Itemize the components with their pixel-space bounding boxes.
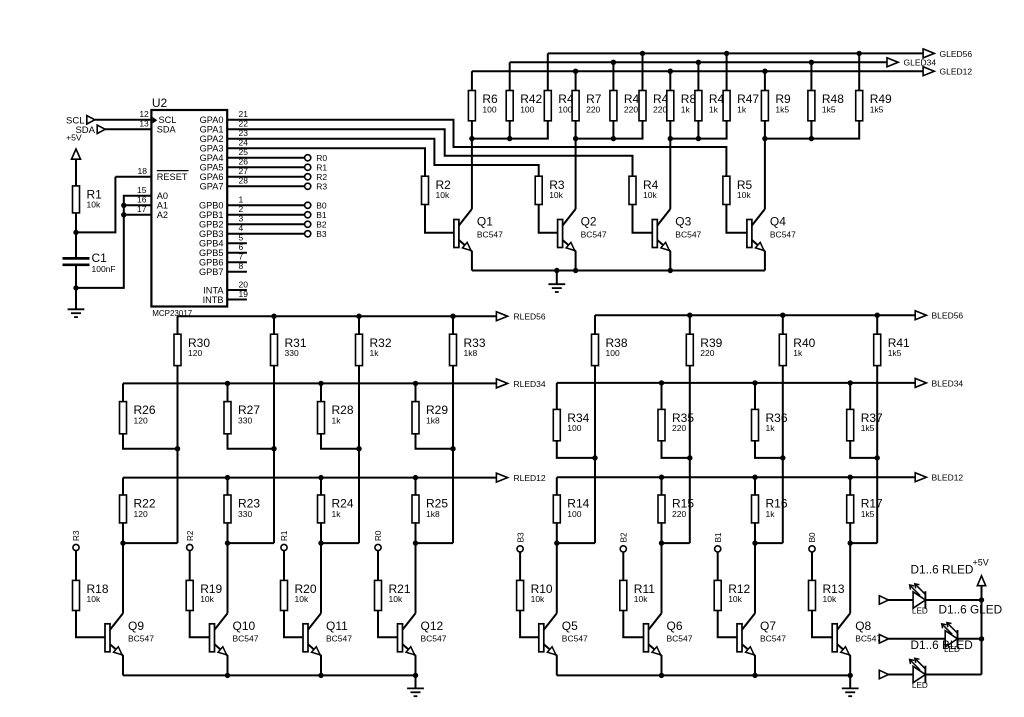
svg-text:GPA1: GPA1	[200, 125, 224, 135]
wire Q8 collector	[849, 543, 851, 613]
svg-text:12: 12	[139, 109, 149, 119]
node B0 (GPB0)	[305, 201, 327, 211]
wire column R39 down	[662, 366, 693, 543]
svg-text:GPB7: GPB7	[199, 267, 224, 277]
wire column R31 top stub	[273, 316, 275, 334]
port RLED12	[496, 473, 546, 483]
node B3 (GPB3)	[305, 229, 327, 239]
resistor R6	[468, 91, 498, 121]
resistor R17	[847, 495, 883, 523]
port SDA input	[75, 125, 151, 136]
transistor Q8	[832, 613, 881, 675]
svg-text:330: 330	[238, 509, 252, 519]
wire B0 to R13	[811, 552, 813, 580]
transistor Q11	[303, 613, 352, 675]
svg-text:GPB4: GPB4	[199, 239, 224, 249]
node R3 input	[72, 530, 81, 551]
diode D1..6 BLED LED	[910, 658, 928, 690]
resistor R2	[422, 176, 452, 204]
resistor R10	[517, 580, 553, 610]
svg-text:A0: A0	[157, 191, 168, 201]
svg-text:GPB5: GPB5	[199, 248, 224, 258]
port GLED12	[923, 67, 972, 77]
svg-text:A1: A1	[157, 201, 168, 211]
transistor Q6	[644, 613, 693, 675]
wire B1 to R12	[717, 552, 719, 580]
svg-text:100: 100	[606, 348, 620, 358]
node B2 input	[620, 532, 629, 552]
wire R23 top stub	[227, 478, 229, 495]
wire R1 bottom to C1 and RESET node	[73, 177, 151, 259]
wire R29 top stub	[415, 383, 417, 401]
svg-text:R1: R1	[280, 530, 289, 541]
port GLED34	[887, 58, 936, 68]
svg-text:BC547: BC547	[233, 634, 259, 644]
resistor R8	[667, 91, 697, 121]
svg-text:220: 220	[653, 104, 667, 114]
port RLED34	[496, 379, 546, 389]
resistor R5	[723, 176, 753, 204]
resistor R31	[271, 334, 307, 365]
svg-text:GPA4: GPA4	[200, 153, 224, 163]
resistor R29	[412, 402, 448, 434]
resistor R19	[186, 580, 222, 610]
svg-text:330: 330	[285, 348, 299, 358]
wire R17 top stub	[849, 477, 851, 495]
resistor R23	[224, 495, 260, 523]
svg-text:1k5: 1k5	[775, 104, 789, 114]
svg-text:R2: R2	[186, 530, 195, 541]
svg-text:20: 20	[239, 279, 249, 289]
wire GLED34 bus	[510, 60, 887, 65]
wire column R41 down	[850, 366, 880, 543]
wire R37 bottom	[850, 441, 877, 458]
svg-text:GPB6: GPB6	[199, 258, 224, 268]
node B0 input	[808, 532, 817, 552]
wire RLED34 bus	[123, 381, 496, 386]
wire R28 top stub	[320, 383, 322, 401]
wire GLED12 bus	[472, 69, 923, 74]
resistor R11	[620, 580, 655, 610]
resistor R25	[412, 495, 448, 523]
resistor R9	[761, 91, 791, 121]
resistor R48	[808, 91, 844, 121]
resistor R42	[506, 91, 542, 121]
svg-text:BC547: BC547	[128, 634, 154, 644]
wire column R39 top stub	[689, 315, 691, 334]
transistor Q2	[558, 209, 607, 271]
svg-text:RESET: RESET	[157, 172, 188, 182]
wire R34 top stub	[556, 383, 558, 410]
diode D1..6 RLED LED	[910, 584, 928, 616]
svg-text:10k: 10k	[643, 190, 657, 200]
svg-text:10k: 10k	[737, 190, 751, 200]
port D1..6 RLED input	[879, 596, 888, 605]
resistor R33	[450, 334, 486, 365]
svg-text:BC547: BC547	[667, 634, 693, 644]
resistor R14	[553, 495, 589, 523]
wire GPA4 to port R0	[227, 157, 304, 159]
wire GPB0 to port B0	[227, 204, 304, 206]
wire Q6 base	[623, 611, 643, 638]
svg-text:GPA7: GPA7	[200, 182, 224, 192]
svg-text:1k5: 1k5	[861, 509, 875, 519]
svg-text:B1: B1	[316, 210, 327, 220]
wire GPA0 to R5	[227, 120, 726, 176]
wire R37 top stub	[849, 383, 851, 410]
svg-text:GPA2: GPA2	[200, 134, 224, 144]
wire Q11 collector	[320, 543, 322, 613]
svg-text:BLED34: BLED34	[932, 378, 964, 388]
svg-text:Q11: Q11	[326, 619, 348, 633]
svg-text:Q7: Q7	[760, 619, 776, 633]
transistor Q1	[454, 209, 503, 271]
wire column R40 down	[755, 366, 786, 543]
ground left matrix	[407, 675, 424, 696]
svg-text:10k: 10k	[436, 190, 450, 200]
svg-text:GPA3: GPA3	[200, 144, 224, 154]
port RLED56	[496, 312, 546, 322]
svg-text:D1..6 RLED: D1..6 RLED	[911, 563, 974, 577]
transistor Q5	[539, 613, 588, 675]
wire R46 top stub	[697, 62, 699, 90]
wire GPA5 to port R1	[227, 166, 304, 168]
resistor R36	[752, 409, 788, 440]
wire +5V rail	[979, 597, 984, 674]
wire column R38 down	[557, 366, 598, 543]
node R0 input	[374, 530, 383, 551]
svg-text:100nF: 100nF	[92, 264, 116, 274]
wire GPA7 to port R3	[227, 185, 304, 187]
svg-text:BC547: BC547	[326, 634, 352, 644]
wire Q9-Q12 emitter bus	[123, 673, 418, 678]
ground below C1	[68, 288, 85, 317]
resistor R7	[572, 91, 602, 121]
wire GPA6 to port R2	[227, 176, 304, 178]
resistor R12	[714, 580, 750, 610]
ground top transistors	[548, 271, 565, 293]
wire R24 bottom	[318, 523, 323, 546]
resistor R18	[73, 580, 109, 610]
port GLED56	[923, 49, 972, 59]
port BLED56	[915, 311, 963, 321]
label D1..6 RLED	[911, 563, 974, 577]
resistor R13	[809, 580, 845, 610]
svg-text:R0: R0	[316, 153, 327, 163]
wire column R30 top stub	[177, 316, 179, 334]
wire R15 bottom	[659, 523, 664, 546]
svg-text:GPA6: GPA6	[200, 172, 224, 182]
label D1..6 GLED	[939, 603, 1003, 617]
wire GPB3 to port B3	[227, 233, 304, 235]
wire GPA2 to R3	[227, 139, 539, 176]
wire R49 top stub	[858, 53, 860, 90]
wire R0 to R21	[377, 551, 379, 581]
svg-text:R1: R1	[316, 163, 327, 173]
node B3 input	[516, 532, 525, 552]
svg-text:220: 220	[672, 509, 686, 519]
transistor Q10	[210, 613, 259, 675]
wire Q9 collector	[122, 543, 124, 613]
resistor R16	[752, 495, 788, 523]
op-amp U2 MCP23017 IC	[137, 96, 248, 318]
svg-text:1k5: 1k5	[822, 104, 836, 114]
svg-text:BC547: BC547	[855, 634, 881, 644]
wire R26 top stub	[122, 383, 124, 401]
wire BLED12 bus	[557, 475, 915, 480]
wire INTB stub	[227, 299, 247, 301]
wire GPB6 stub	[227, 261, 247, 263]
wire Q1 base	[425, 205, 454, 233]
wire R8 top stub	[669, 71, 671, 90]
svg-text:B1: B1	[714, 532, 723, 542]
svg-text:15: 15	[137, 185, 147, 195]
ground right matrix	[842, 675, 859, 696]
wire Q7 base	[718, 611, 737, 638]
svg-text:INTA: INTA	[203, 285, 224, 295]
wire R1 to R20	[283, 551, 285, 581]
svg-text:SDA: SDA	[157, 125, 177, 135]
wire R27 bottom	[228, 434, 275, 449]
svg-text:BC547: BC547	[581, 229, 607, 239]
svg-text:1: 1	[239, 195, 244, 205]
wire R7 top stub	[575, 71, 577, 90]
svg-text:Q8: Q8	[855, 619, 871, 633]
svg-text:1k: 1k	[766, 423, 776, 433]
svg-text:10k: 10k	[728, 594, 742, 604]
resistor R35	[658, 409, 694, 440]
diode D1..6 GLED LED	[942, 623, 960, 655]
wire group 3 bottom bus	[668, 121, 727, 142]
wire R45 top stub	[642, 53, 644, 90]
svg-text:BC547: BC547	[675, 229, 701, 239]
wire Q4 base	[726, 205, 747, 233]
svg-text:Q10: Q10	[233, 619, 256, 633]
wire column R38 top stub	[594, 315, 596, 334]
svg-text:R0: R0	[374, 530, 383, 541]
node B2 (GPB2)	[305, 220, 327, 230]
wire R25 top stub	[415, 478, 417, 495]
svg-text:21: 21	[239, 109, 249, 119]
svg-text:100: 100	[482, 104, 496, 114]
node R3 (GPA7)	[305, 182, 328, 192]
wire column R33 top stub	[452, 316, 454, 334]
svg-text:GLED34: GLED34	[904, 58, 937, 68]
wire R14 bottom	[554, 523, 559, 546]
wire R16 top stub	[754, 477, 756, 495]
svg-text:GPB0: GPB0	[199, 201, 224, 211]
svg-text:Q6: Q6	[667, 619, 683, 633]
resistor R37	[847, 409, 883, 440]
wire R43 top stub	[547, 53, 549, 90]
wire Q5-Q8 emitter bus	[557, 673, 853, 678]
resistor R27	[224, 402, 260, 434]
svg-text:BC547: BC547	[760, 634, 786, 644]
wire R6 top stub	[471, 71, 473, 90]
svg-text:R3: R3	[72, 530, 81, 541]
svg-text:GPB2: GPB2	[199, 220, 224, 230]
wire RLED row	[889, 599, 982, 601]
resistor R32	[356, 334, 392, 365]
svg-text:B3: B3	[516, 532, 525, 542]
wire column R30 down	[123, 366, 180, 543]
resistor R20	[281, 580, 317, 610]
node B1 (GPB1)	[305, 210, 327, 220]
svg-text:BLED56: BLED56	[932, 311, 964, 321]
wire Q10 collector	[227, 543, 229, 613]
svg-text:1k8: 1k8	[464, 348, 478, 358]
wire Q3 base	[633, 205, 653, 233]
wire R26 bottom	[123, 434, 178, 449]
wire Q10 base	[190, 611, 210, 638]
wire GPA1 to R4	[227, 129, 632, 176]
wire GLED56 bus	[548, 51, 923, 56]
svg-text:BC547: BC547	[770, 229, 796, 239]
svg-text:Q9: Q9	[128, 619, 144, 633]
wire GPB2 to port B2	[227, 223, 304, 225]
power +5V supply	[66, 132, 82, 186]
wire R24 top stub	[320, 478, 322, 495]
wire BLED34 bus	[557, 380, 915, 385]
wire group 2 bottom bus	[573, 121, 643, 142]
svg-text:330: 330	[238, 415, 252, 425]
wire Q7 collector	[754, 543, 756, 613]
port D1..6 GLED input	[879, 635, 888, 644]
wire R29 bottom	[416, 434, 454, 449]
svg-text:1k8: 1k8	[426, 415, 440, 425]
capacitor C1	[63, 251, 116, 274]
resistor R39	[686, 334, 722, 365]
wire R22 bottom	[120, 523, 125, 546]
svg-text:D1..6 BLED: D1..6 BLED	[911, 638, 973, 652]
wire R28 bottom	[321, 434, 359, 449]
wire R14 top stub	[556, 477, 558, 495]
svg-text:Q5: Q5	[562, 619, 578, 633]
wire GPB4 stub	[227, 242, 247, 244]
svg-text:1k5: 1k5	[861, 423, 875, 433]
wire R47 top stub	[726, 53, 728, 90]
svg-text:10k: 10k	[87, 594, 101, 604]
resistor R45	[639, 91, 675, 121]
wire RLED12 bus	[123, 475, 496, 480]
wire R16 bottom	[752, 523, 757, 546]
wire group 1 bottom bus	[469, 121, 548, 142]
wire R9 top stub	[764, 71, 766, 90]
svg-text:120: 120	[188, 348, 202, 358]
svg-text:1k: 1k	[709, 104, 719, 114]
node B1 input	[714, 532, 723, 552]
svg-text:1k: 1k	[370, 348, 380, 358]
resistor R22	[120, 495, 156, 523]
svg-text:+5V: +5V	[973, 558, 989, 568]
svg-text:100: 100	[567, 509, 581, 519]
wire R22 top stub	[122, 478, 124, 495]
svg-text:B0: B0	[316, 201, 327, 211]
svg-text:B0: B0	[808, 532, 817, 542]
node R1 input	[280, 530, 289, 551]
transistor Q12	[398, 613, 447, 675]
svg-text:10k: 10k	[531, 594, 545, 604]
node R0 (GPA4)	[305, 153, 328, 163]
svg-text:1k: 1k	[681, 104, 691, 114]
wire Q2 base	[539, 205, 558, 233]
wire R35 bottom	[662, 441, 690, 458]
svg-text:Q3: Q3	[675, 215, 691, 229]
svg-text:A2: A2	[157, 210, 168, 220]
transistor Q7	[737, 613, 786, 675]
wire R36 bottom	[755, 441, 783, 458]
svg-text:10k: 10k	[295, 594, 309, 604]
svg-text:INTB: INTB	[203, 295, 224, 305]
port BLED34	[915, 378, 963, 388]
wire GPB1 to port B1	[227, 214, 304, 216]
resistor R34	[553, 409, 589, 440]
wire R23 bottom	[225, 523, 230, 546]
wire Q8 base	[812, 611, 832, 638]
svg-text:LED: LED	[912, 606, 928, 615]
wire column R32 down	[321, 366, 362, 543]
port D1..6 BLED input	[879, 670, 888, 679]
node R2 input	[186, 530, 195, 551]
resistor R1	[73, 186, 103, 213]
wire GPB5 stub	[227, 252, 247, 254]
wire R27 top stub	[227, 383, 229, 401]
svg-text:120: 120	[134, 509, 148, 519]
resistor R15	[658, 495, 694, 523]
wire Q4 collector	[764, 139, 766, 209]
svg-text:10k: 10k	[823, 594, 837, 604]
svg-text:10k: 10k	[87, 200, 101, 210]
resistor R47	[723, 91, 759, 121]
svg-text:1k8: 1k8	[426, 509, 440, 519]
wire R36 top stub	[754, 383, 756, 410]
svg-text:R3: R3	[316, 182, 327, 192]
wire RLED56 bus	[178, 314, 497, 319]
wire column R31 down	[228, 366, 277, 543]
svg-text:U2: U2	[152, 96, 168, 110]
svg-text:1k5: 1k5	[870, 104, 884, 114]
wire Q12 base	[378, 611, 398, 638]
svg-text:220: 220	[672, 423, 686, 433]
wire B3 to R10	[519, 552, 521, 580]
wire Q6 collector	[661, 543, 663, 613]
svg-text:100: 100	[567, 423, 581, 433]
svg-text:GPA5: GPA5	[200, 163, 224, 173]
svg-text:Q4: Q4	[770, 215, 786, 229]
resistor R49	[856, 91, 892, 121]
wire BLED row	[889, 674, 982, 676]
svg-text:GPB3: GPB3	[199, 229, 224, 239]
svg-text:10k: 10k	[389, 594, 403, 604]
transistor Q3	[652, 209, 701, 271]
wire R3 to R18	[75, 551, 77, 581]
svg-text:BC547: BC547	[477, 229, 503, 239]
wire R42 top stub	[509, 62, 511, 90]
svg-text:SCL: SCL	[159, 115, 177, 125]
svg-text:+5V: +5V	[66, 132, 82, 142]
svg-text:RLED34: RLED34	[514, 379, 546, 389]
svg-text:220: 220	[624, 104, 638, 114]
resistor R24	[318, 495, 354, 523]
wire R15 top stub	[661, 477, 663, 495]
wire column R32 top stub	[358, 316, 360, 334]
node R2 (GPA6)	[305, 172, 328, 182]
svg-text:1k: 1k	[737, 104, 747, 114]
resistor R46	[695, 91, 731, 121]
svg-text:100: 100	[520, 104, 534, 114]
svg-text:B2: B2	[316, 220, 327, 230]
resistor R26	[120, 402, 156, 434]
